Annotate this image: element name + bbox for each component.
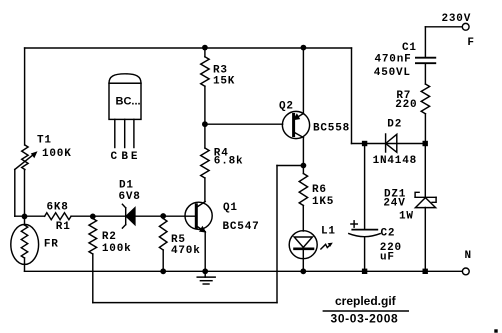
svg-text:470nF: 470nF — [375, 53, 412, 65]
svg-text:450VL: 450VL — [374, 67, 411, 79]
svg-text:6.8k: 6.8k — [214, 156, 244, 168]
svg-text:1K5: 1K5 — [312, 196, 334, 208]
svg-text:C: C — [111, 151, 118, 163]
svg-text:6K8: 6K8 — [47, 202, 69, 214]
svg-text:R2: R2 — [102, 231, 117, 243]
svg-text:F: F — [467, 37, 474, 49]
svg-text:1W: 1W — [399, 211, 414, 223]
svg-text:D2: D2 — [387, 118, 402, 130]
svg-text:FR: FR — [44, 239, 59, 251]
svg-text:N: N — [465, 250, 472, 262]
svg-text:D1: D1 — [119, 179, 134, 191]
svg-text:30-03-2008: 30-03-2008 — [331, 311, 399, 325]
svg-text:R3: R3 — [213, 64, 228, 76]
svg-text:24V: 24V — [383, 197, 405, 209]
svg-text:100k: 100k — [102, 243, 132, 255]
svg-text:B: B — [121, 151, 128, 163]
svg-text:230V: 230V — [442, 13, 472, 25]
svg-text:15K: 15K — [213, 76, 235, 88]
svg-text:C2: C2 — [381, 228, 396, 240]
svg-text:Q1: Q1 — [223, 202, 238, 214]
svg-text:220: 220 — [395, 99, 417, 111]
svg-text:BC...: BC... — [116, 96, 141, 108]
svg-text:L1: L1 — [321, 226, 336, 238]
svg-text:BC558: BC558 — [313, 123, 350, 135]
svg-text:R1: R1 — [56, 221, 71, 233]
svg-text:1N4148: 1N4148 — [373, 155, 417, 167]
svg-text:R6: R6 — [312, 184, 327, 196]
svg-text:6V8: 6V8 — [119, 191, 141, 203]
svg-text:uF: uF — [380, 251, 395, 263]
svg-text:crepled.gif: crepled.gif — [335, 294, 397, 308]
svg-text:C1: C1 — [402, 42, 417, 54]
svg-text:T1: T1 — [37, 135, 52, 147]
svg-text:Q2: Q2 — [279, 100, 294, 112]
svg-text:470k: 470k — [171, 245, 201, 257]
svg-text:BC547: BC547 — [223, 221, 260, 233]
svg-text:100K: 100K — [42, 148, 72, 160]
svg-text:E: E — [131, 151, 138, 163]
